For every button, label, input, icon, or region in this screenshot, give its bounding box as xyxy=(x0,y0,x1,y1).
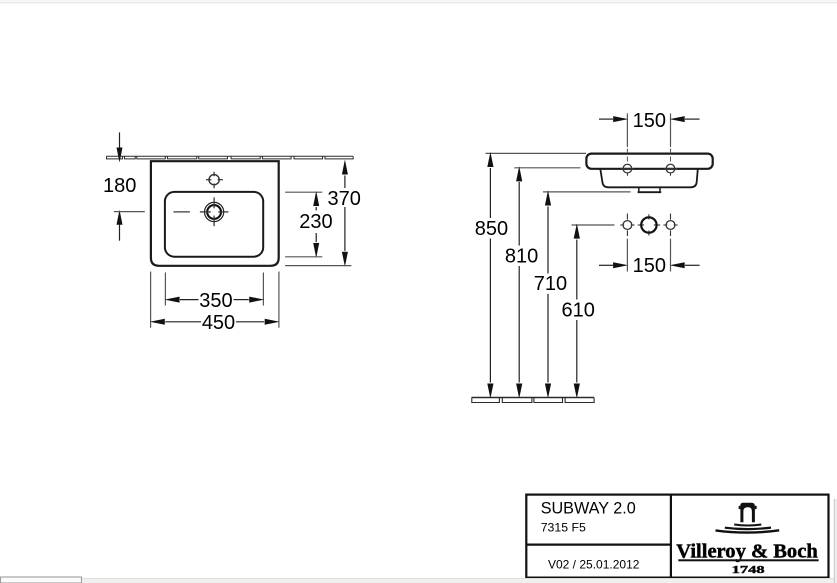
logo arch right serif xyxy=(755,505,757,509)
bottom scrollbar thumb xyxy=(1,577,82,583)
dimension 180 xyxy=(103,132,145,240)
logo wave 2 xyxy=(725,528,771,530)
top viewer edge line xyxy=(0,0,837,2)
extension line 810 level xyxy=(514,167,580,169)
logo wave 1 xyxy=(734,525,761,526)
svg-text:SUBWAY 2.0: SUBWAY 2.0 xyxy=(541,499,636,517)
svg-text:150: 150 xyxy=(633,255,666,277)
inner bowl outline (plan view) xyxy=(165,192,263,257)
bottom scrollbar track xyxy=(0,579,837,583)
basin rim (front view) xyxy=(586,154,712,169)
drain circles (plan view) xyxy=(173,197,228,226)
pipe hole large center (front view) xyxy=(638,214,660,235)
svg-text:850: 850 xyxy=(475,218,508,240)
dimension 230 xyxy=(285,191,332,258)
svg-text:370: 370 xyxy=(328,188,361,210)
svg-text:180: 180 xyxy=(103,175,136,197)
svg-text:150: 150 xyxy=(633,110,666,132)
svg-text:230: 230 xyxy=(299,211,332,233)
svg-text:Villeroy & Boch: Villeroy & Boch xyxy=(676,540,818,562)
logo arch xyxy=(740,503,755,522)
dimension 370 xyxy=(285,160,361,267)
extension line 610 level xyxy=(572,224,615,226)
svg-text:710: 710 xyxy=(534,273,567,295)
dimension 150 top xyxy=(599,110,700,147)
centerline right dashed xyxy=(670,149,672,165)
floor hatch band xyxy=(472,398,595,403)
screw hole right (front view) xyxy=(664,164,678,176)
extension line 850 level xyxy=(486,152,587,154)
logo underline xyxy=(678,559,818,561)
svg-text:810: 810 xyxy=(505,245,538,267)
svg-text:1748: 1748 xyxy=(732,565,765,576)
drain outlet stub (front view) xyxy=(639,188,660,193)
logo wave 3 xyxy=(716,530,780,532)
dimension 710 xyxy=(534,190,567,398)
extension line 710 level xyxy=(543,191,631,193)
centerline left dashed xyxy=(626,149,628,165)
pipe hole small left (front view) xyxy=(620,214,634,237)
svg-text:V02 / 25.01.2012: V02 / 25.01.2012 xyxy=(548,557,640,571)
tap hole crosshair (plan view) xyxy=(206,172,223,189)
dimension 150 bottom xyxy=(599,239,700,278)
basin outer outline (plan view) xyxy=(151,161,279,266)
right scrollbar xyxy=(835,499,837,583)
dimension 610 xyxy=(562,224,595,399)
svg-text:450: 450 xyxy=(202,312,235,334)
wall hatch band (plan view) xyxy=(106,156,353,159)
pipe hole small right (front view) xyxy=(663,214,677,237)
dimension 450 xyxy=(150,272,280,335)
logo arch left serif xyxy=(739,505,741,509)
dimension 850 xyxy=(475,152,508,399)
dimension 350 xyxy=(165,273,265,313)
svg-text:610: 610 xyxy=(562,299,595,321)
svg-text:7315 F5: 7315 F5 xyxy=(541,521,586,535)
bowl profile (front view) xyxy=(600,169,698,188)
dimension 810 xyxy=(505,166,538,398)
screw hole left (front view) xyxy=(621,164,635,176)
svg-text:350: 350 xyxy=(199,290,232,312)
